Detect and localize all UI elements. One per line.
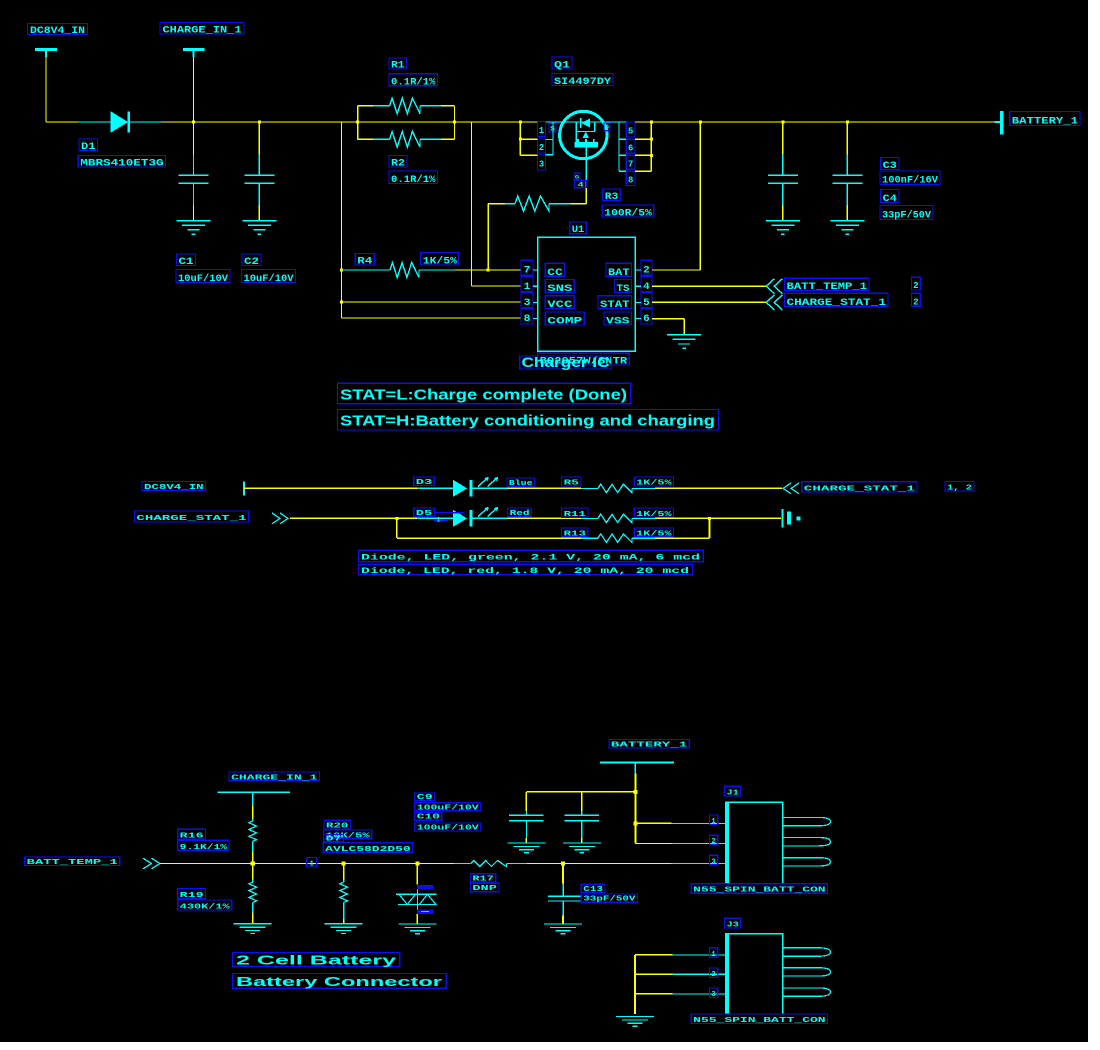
offpage chevrons BATT_TEMP_1 [143,858,160,869]
text 2 Cell Battery [233,953,400,968]
wire battery vertical [634,774,636,844]
U1 pin 8 [521,309,533,325]
wire VCC/COMP branch vertical [341,122,343,318]
svg-text:1K/5%: 1K/5% [636,480,672,488]
junction CHARGE_IN/C1 [192,121,195,124]
Q1 pin 3 [537,155,545,170]
svg-text:0.1R/1%: 0.1R/1% [391,76,436,88]
wire R13 branch [397,518,581,538]
svg-text:C4: C4 [883,194,897,205]
junction D7 [415,861,419,865]
ground C13 [544,924,582,934]
Q1 pin 1 [537,121,545,136]
wire VSS to ground [652,319,684,335]
svg-text:Diode, LED, red, 1.8 V, 20 mA,: Diode, LED, red, 1.8 V, 20 mA, 20 mcd [361,566,689,576]
svg-text:D1: D1 [81,142,96,153]
terminal BATTERY_1 [995,111,1002,135]
svg-text:2: 2 [711,838,716,846]
junction Q1 pin2 [519,138,522,141]
LED D5 Red [417,507,508,527]
label Q1 [552,57,572,72]
U1 pin name VSS [604,312,632,328]
wire main rail A [46,121,79,123]
ground R20 [325,924,363,934]
label AVLC58D2D50 [323,843,413,854]
junction C13 [561,861,565,865]
junction R16/R19 [251,861,255,865]
U1 pin name CC [545,263,565,279]
U1 pin name TS [615,280,632,296]
svg-text:2: 2 [913,296,919,307]
wire BATT_TEMP row A [160,863,454,865]
resistor network R1 R2 parallel [358,106,455,139]
U1 pin 1 [521,277,533,293]
Q1 pin 7 [626,155,635,169]
LED D3 Blue [417,477,508,497]
svg-text:SNS: SNS [547,283,572,295]
label D7 [324,835,344,844]
svg-text:100R/5%: 100R/5% [604,208,652,220]
J3 pin 1 [709,948,717,959]
svg-text:Battery Connector: Battery Connector [236,974,442,989]
junction R1R2 left [356,121,359,124]
svg-text:10uF/10V: 10uF/10V [178,273,228,285]
svg-text:1: 1 [711,951,716,959]
wire J3 pin1 [635,954,726,956]
Q1 pin label S [549,123,556,132]
J3 pin 2 [709,968,717,979]
junction J1 pin1 [633,821,637,825]
ground R19 [234,924,272,934]
svg-text:STAT: STAT [600,299,630,311]
wire J1 pin2 [635,843,726,845]
wire TS to BATT_TEMP_1 [652,285,766,287]
wire battery rail bottom [526,791,635,793]
text Charger IC [520,354,612,370]
wire STAT to CHARGE_STAT_1 [652,301,766,303]
wire main rail C [635,121,994,123]
svg-text:430K/1%: 430K/1% [180,904,231,912]
junction drain pin6 [650,138,653,141]
svg-text:6: 6 [628,143,633,153]
U1 pin name STAT [598,296,632,312]
svg-text:5: 5 [628,127,633,137]
wire COMP row [342,317,522,319]
svg-text:Blue: Blue [509,480,533,488]
junction drain pin5 [650,121,653,124]
wire Q1 drain pins yellow tie [635,122,651,171]
Q1 pin 5 [626,122,635,137]
port tick DC8V4_IN mid [243,482,245,496]
junction rail [633,790,637,794]
capacitor C13 33pF/50V [548,864,580,924]
svg-text:BATT_TEMP_1: BATT_TEMP_1 [787,282,868,293]
offpage chevrons rowB [272,513,288,524]
wire VCC row [342,301,522,303]
svg-text:10uF/10V: 10uF/10V [244,273,294,285]
label J1 [725,786,741,797]
capacitor C2 10uF/10V [244,122,274,221]
svg-text:C3: C3 [883,161,897,172]
junction drain pin7 [650,154,653,157]
svg-text:BATTERY_1: BATTERY_1 [1012,116,1078,127]
label Blue [507,478,535,488]
svg-text:3: 3 [711,858,716,866]
svg-text:BATTERY_1: BATTERY_1 [611,742,688,750]
svg-text:2 Cell Battery: 2 Cell Battery [236,953,397,968]
svg-text:R2: R2 [391,159,405,170]
U1 pin name VCC [545,296,574,312]
svg-text:8: 8 [628,176,633,186]
U1 pin 4 [641,277,652,293]
svg-text:1K/5%: 1K/5% [423,256,457,268]
J1 pin 2 [709,835,717,846]
resistor R17 DNP [454,861,527,867]
svg-text:R17: R17 [472,876,493,884]
svg-text:3: 3 [539,160,544,170]
wire CHARGE_IN_1 down [193,57,195,122]
junction BAT branch [699,121,702,124]
svg-text:CHARGE_STAT_1: CHARGE_STAT_1 [804,486,916,494]
resistor R20 10K/5% [340,864,348,924]
wire rowB to D5 [290,517,417,519]
svg-text:2: 2 [539,143,544,153]
connector J1 N55_SPIN_BATT_CON [726,802,783,884]
svg-text:N55_SPIN_BATT_CON: N55_SPIN_BATT_CON [693,1017,825,1025]
capacitor C9 100uF/10V [509,792,543,843]
svg-text:8: 8 [524,314,531,325]
junction C2 [258,121,261,124]
svg-text:33pF/50V: 33pF/50V [882,209,931,221]
svg-text:STAT=H:Battery conditioning an: STAT=H:Battery conditioning and charging [340,414,715,430]
svg-text:C1: C1 [179,257,194,268]
Q1 pin 4 [575,181,587,189]
svg-text:D3: D3 [416,479,433,487]
TVS diode D7 [396,864,437,924]
svg-text:2: 2 [643,266,650,277]
offpage connector CHARGE_STAT_1 mid [783,483,799,494]
wire R5 to offpage [655,487,782,489]
svg-text:J3: J3 [727,922,740,930]
wire R13 to rowB [655,518,710,538]
offpage connector BATT_TEMP_1 [766,279,782,294]
svg-text:D7: D7 [326,835,342,843]
svg-text:4: 4 [643,282,650,293]
D5 pin1 mark [434,513,465,524]
wire D3 to R5 [508,487,581,489]
svg-text:33pF/50V: 33pF/50V [583,896,636,904]
label N55_SPIN_BATT_CON J3 [691,1014,827,1025]
junction Q1 source pins [519,121,522,124]
wire DC8V4_IN down [45,57,47,122]
wire J1 pin1 [635,822,726,824]
svg-text:3: 3 [711,991,716,999]
offpage connector CHARGE_STAT_1 [766,295,782,310]
svg-text:R4: R4 [357,257,372,268]
svg-text:1: 1 [539,126,545,136]
wire J3 pin3 [635,993,726,995]
svg-text:AVLC58D2D50: AVLC58D2D50 [325,846,411,854]
text STAT=L [337,383,630,403]
label DC8V4_IN mid [142,482,206,493]
svg-text:CHARGE_STAT_1: CHARGE_STAT_1 [136,515,247,523]
junction C3 [781,121,784,124]
wire Q1 drain pins cyan tie [604,122,626,171]
junction R1R2 right [453,121,456,124]
J1 pin 3 [709,855,717,866]
power port CHARGE_IN_1 bottom [229,772,319,782]
svg-text:Charger IC: Charger IC [522,354,610,370]
J1 finger pins [783,817,831,866]
label D5 [414,508,434,518]
label BATT_TEMP_1 [785,278,870,293]
label CHARGE_STAT_1 left [134,511,248,523]
resistor R16 9.1K/1% [249,806,257,864]
svg-text:D: D [605,124,609,131]
U1 pin 3 [521,293,533,309]
svg-text:1, 2: 1, 2 [947,484,973,492]
label CHARGE_STAT_1 [785,293,889,309]
svg-text:9.1K/1%: 9.1K/1% [180,844,228,852]
svg-text:DC8V4_IN: DC8V4_IN [30,26,85,37]
text LED red spec [359,564,693,576]
svg-text:SI4497DY: SI4497DY [554,77,611,88]
label D1 [79,139,98,153]
svg-text:Red: Red [510,510,530,518]
wire SNS row [472,285,522,287]
junction C4 [846,121,849,124]
wire J1 pin3 [672,863,726,865]
wire Q1 source pins tie [520,122,537,155]
junction R13 branch [395,517,398,520]
page ref 1,2 [945,481,974,492]
svg-text:STAT=L:Charge complete (Done): STAT=L:Charge complete (Done) [340,388,627,404]
svg-text:2: 2 [913,280,919,291]
svg-text:C10: C10 [417,814,441,822]
svg-text:CC: CC [547,267,563,279]
label U1 [570,222,587,236]
capacitor C4 33pF/50V [832,122,862,221]
ground VSS [667,335,701,349]
svg-text:MBRS410ET3G: MBRS410ET3G [80,158,163,169]
svg-text:5: 5 [643,298,650,309]
svg-text:TS: TS [617,283,630,295]
svg-text:DC8V4_IN: DC8V4_IN [144,484,204,492]
J3 finger pins [783,948,831,997]
wire BATT_TEMP row B [527,863,672,865]
wire D5 to R11 [508,517,581,519]
svg-text:COMP: COMP [547,315,582,327]
svg-text:U1: U1 [572,225,585,236]
junction R13 top [708,517,711,520]
resistor R1 0.1R/1% [373,98,441,114]
text STAT=H [337,410,718,430]
svg-text:VSS: VSS [606,315,630,327]
transistor Q1 SI4497DY p-channel MOSFET [546,111,607,188]
wire Q1 pins2,3 cyan tie [546,122,553,155]
IC U1 BQ2057W body [538,237,636,351]
wire CC row [455,269,521,271]
svg-text:C13: C13 [583,886,603,894]
U1 pin 7 [521,260,533,276]
page ref 2 [912,277,921,291]
label BATT_TEMP_1 bottom [25,857,120,867]
U1 pin 5 [641,293,652,309]
text Battery Connector [233,973,447,989]
svg-text:4: 4 [578,181,585,188]
Q1 pin 8 [626,171,635,185]
svg-text:1: 1 [310,860,315,868]
J1 pin 1 [709,815,717,826]
wire J3 pin2 [635,973,726,975]
svg-text:R3: R3 [605,192,619,203]
svg-text:R13: R13 [564,530,587,538]
svg-text:R5: R5 [564,480,580,488]
svg-text:1K/5%: 1K/5% [636,530,672,538]
svg-text:Diode, LED, green, 2.1 V, 20 m: Diode, LED, green, 2.1 V, 20 mA, 6 mcd [361,552,700,562]
Q1 pin label D [604,123,610,131]
svg-text:1K/5%: 1K/5% [636,511,672,519]
svg-text:D5: D5 [416,510,433,518]
wire BAT pin2 to rail [652,122,700,270]
svg-text:CHARGE_STAT_1: CHARGE_STAT_1 [787,298,887,309]
ground D7 [398,924,436,934]
ground C9 [507,843,545,853]
junction R3/CC [487,269,490,272]
connector J3 N55_SPIN_BATT_CON [726,934,783,1014]
junction R20 [342,861,346,865]
power port CHARGE_IN_1 [160,23,244,58]
svg-text:C9: C9 [417,794,434,802]
resistor R11 1K/5% [581,514,655,522]
label BATTERY_1 [1010,112,1080,128]
resistor R19 430K/1% [249,864,257,924]
svg-text:R19: R19 [180,892,205,900]
label D3 [414,477,434,487]
svg-text:R16: R16 [180,832,205,840]
svg-text:C2: C2 [244,257,259,268]
diode D1 MBRS410ET3G [79,111,162,133]
resistor R2 0.1R/1% [373,132,441,148]
svg-text:7: 7 [628,160,633,170]
label BQ2057W/SNTR [538,353,630,367]
U1 pin name BAT [606,263,632,279]
label N55_SPIN_BATT_CON J1 [691,884,827,895]
svg-text:Q1: Q1 [554,61,570,72]
label Red [508,508,532,518]
Q1 pin 6 [626,139,635,153]
wire J3 ground vertical [634,955,636,1014]
svg-text:1: 1 [711,818,716,826]
wire rowA to D3 [244,487,417,489]
svg-text:7: 7 [524,266,531,277]
page ref 2 [912,293,921,307]
svg-text:DNP: DNP [472,885,497,893]
svg-text:6: 6 [643,314,650,325]
U1 pin name COMP [545,312,584,328]
svg-text:2: 2 [711,971,716,979]
junction VCC row [340,301,343,304]
svg-text:3: 3 [524,298,531,309]
wire R11 out [655,517,781,519]
power port BATTERY_1 bottom [609,740,689,750]
svg-text:CHARGE_IN_1: CHARGE_IN_1 [231,774,318,782]
U1 pin name SNS [545,280,574,296]
text LED green spec [359,550,704,562]
ground J3 [616,1016,654,1026]
resistor R4 1K/5% [342,263,456,278]
svg-text:R1: R1 [391,61,405,72]
capacitor C3 100nF/16V [768,122,798,221]
J3 pin 3 [709,988,717,999]
svg-text:BATT_TEMP_1: BATT_TEMP_1 [27,859,118,867]
U1 pin 6 [641,309,652,325]
label J3 [725,918,741,929]
svg-text:100uF/10V: 100uF/10V [417,824,480,832]
svg-text:R20: R20 [326,822,349,830]
svg-text:1: 1 [524,282,531,293]
ground C10 [563,843,601,853]
capacitor C1 10uF/10V [179,122,209,221]
svg-text:0.1R/1%: 0.1R/1% [391,174,436,186]
U1 pin 2 [641,260,652,276]
net label 1 [307,858,317,869]
wire SNS branch vertical [471,122,473,286]
net stub symbol rowB [783,509,801,528]
resistor R3 100R/5% [488,188,586,270]
Q1 pin 2 [537,139,545,153]
svg-text:100nF/16V: 100nF/16V [882,175,938,187]
svg-text:1: 1 [437,517,441,524]
label CHARGE_STAT_1 mid [802,482,917,494]
svg-text:J1: J1 [727,790,740,798]
power port DC8V4_IN [28,24,88,58]
label MBRS410ET3G [78,155,165,169]
capacitor C10 100uF/10V [565,792,599,843]
U1 pin stubs [533,270,641,319]
svg-text:VCC: VCC [547,299,573,311]
svg-text:BAT: BAT [608,267,630,279]
Q1 pin label G [574,173,580,180]
svg-text:CHARGE_IN_1: CHARGE_IN_1 [163,25,242,36]
resistor R13 1K/5% [581,534,655,542]
wire main rail B [161,121,537,123]
resistor R5 1K/5% [581,484,655,492]
label SI4497DY [552,74,613,89]
junction R4 row [340,269,343,272]
svg-text:R11: R11 [564,511,587,519]
svg-text:100uF/10V: 100uF/10V [417,804,480,812]
svg-text:N55_SPIN_BATT_CON: N55_SPIN_BATT_CON [693,887,825,895]
